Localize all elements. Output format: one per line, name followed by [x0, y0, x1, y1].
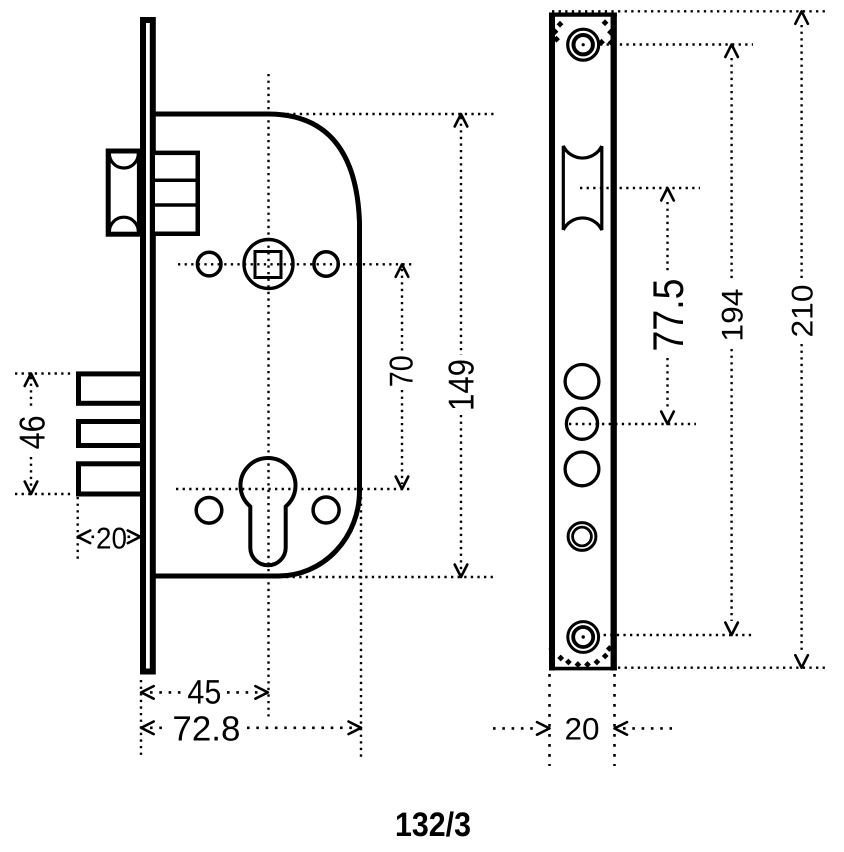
arrow 210 down	[795, 655, 808, 668]
spindle square hole	[255, 252, 281, 278]
svg-text:45: 45	[187, 674, 221, 712]
arrow 149 down	[455, 565, 468, 578]
middle hole 2	[566, 408, 597, 439]
middle hole 3	[565, 452, 599, 486]
ref line handle axis y=264	[178, 263, 412, 265]
ref line case top y=114	[280, 113, 494, 115]
ref line cylinder axis y=489	[176, 488, 412, 490]
svg-text:20: 20	[96, 523, 127, 556]
lock case outline	[155, 114, 360, 576]
deadbolt prong 1	[79, 374, 143, 403]
faceplate (front view)	[551, 14, 615, 670]
svg-text:46: 46	[11, 415, 52, 449]
center vertical line	[267, 74, 269, 719]
arrow 72.8 left	[141, 722, 154, 735]
dim 149 line segments	[460, 117, 462, 355]
latch head bottom notch	[109, 217, 138, 232]
top hatch marks	[552, 19, 615, 46]
arrow 77.5 up	[661, 188, 674, 201]
bottom screw hole inner	[573, 627, 593, 647]
bottom hatch marks	[548, 645, 612, 668]
right: ref line top hole	[600, 43, 753, 45]
svg-text:149: 149	[441, 359, 482, 411]
handle screw hole left	[197, 252, 221, 276]
arrow 20R left (points right)	[537, 722, 550, 735]
ext line faceplate left	[140, 680, 142, 758]
svg-text:72.8: 72.8	[172, 709, 240, 748]
svg-text:77.5: 77.5	[645, 279, 693, 352]
ref line prongs top	[15, 372, 73, 374]
top screw hole inner	[574, 35, 593, 54]
ext line prong left	[76, 497, 78, 560]
cylinder screw hole right	[313, 497, 339, 523]
dim 20 left dots	[92, 535, 96, 538]
latch bolt head	[108, 151, 139, 234]
right: ref line plate bottom	[618, 667, 827, 669]
arrow 20R right (points left)	[615, 722, 628, 735]
cylinder fixing hole inner	[573, 527, 592, 546]
dim 210 segments	[800, 25, 802, 278]
dim 194 segments	[730, 58, 732, 281]
dim 77.5 segments	[666, 202, 668, 272]
ext line plate right below	[613, 674, 616, 766]
arrow 77.5 down	[661, 412, 674, 425]
faceplate (side view)	[143, 20, 153, 672]
arrow 46 up	[25, 374, 38, 387]
ref line case bottom y=577	[286, 576, 494, 578]
cylinder screw hole left	[196, 498, 222, 524]
latch opening (spool cutout)	[563, 146, 602, 230]
right: ref line plate top	[552, 10, 828, 12]
bottom screw hole outer	[568, 622, 599, 653]
dim 72.8 dotted segments	[150, 726, 168, 729]
arrow 194 down	[725, 623, 738, 636]
top screw hole center dot	[582, 43, 585, 46]
arrow 70 down	[396, 477, 409, 490]
arrow 210 up	[795, 11, 808, 23]
svg-text:132/3: 132/3	[395, 806, 471, 844]
right: ref line bottom hole	[597, 634, 754, 636]
dim 70 line segments	[401, 269, 403, 352]
handle screw hole right	[314, 252, 338, 276]
arrow 45 right	[255, 686, 268, 699]
svg-text:210: 210	[787, 285, 820, 338]
ext line case right edge	[360, 497, 362, 758]
latch tail divider 2	[155, 203, 198, 207]
top screw hole outer	[568, 29, 599, 60]
ref line prongs bottom	[15, 493, 73, 495]
latch tail box	[153, 153, 198, 234]
bottom screw hole center dot	[582, 635, 585, 638]
dim 45 dotted segments	[150, 691, 183, 694]
arrow 20L left	[78, 531, 91, 544]
dim 20 right dotted segments	[493, 727, 537, 730]
middle hole 1	[565, 365, 599, 399]
svg-text:70: 70	[382, 355, 419, 387]
dim 46 line segments	[30, 377, 32, 408]
latch head top notch	[109, 154, 138, 169]
spindle hub circle	[244, 240, 293, 289]
cylinder fixing hole outer	[568, 523, 596, 551]
arrow 46 down	[25, 482, 38, 495]
euro cylinder hole	[241, 458, 296, 565]
deadbolt prong 2	[79, 422, 143, 446]
ext line plate left below	[548, 674, 551, 766]
arrow 70 up	[396, 264, 409, 277]
latch tail divider 1	[155, 178, 198, 182]
arrow 45 left	[141, 686, 154, 699]
right: ref line latch axis	[580, 187, 700, 189]
arrow 20L right	[128, 531, 141, 544]
arrow 194 up	[725, 45, 738, 58]
svg-text:20: 20	[565, 711, 600, 746]
arrow 72.8 right	[349, 722, 362, 735]
svg-text:194: 194	[717, 289, 750, 342]
arrow 149 up	[455, 114, 468, 127]
right: ref line middle hole 2	[569, 423, 696, 425]
deadbolt prong 3	[79, 464, 143, 494]
